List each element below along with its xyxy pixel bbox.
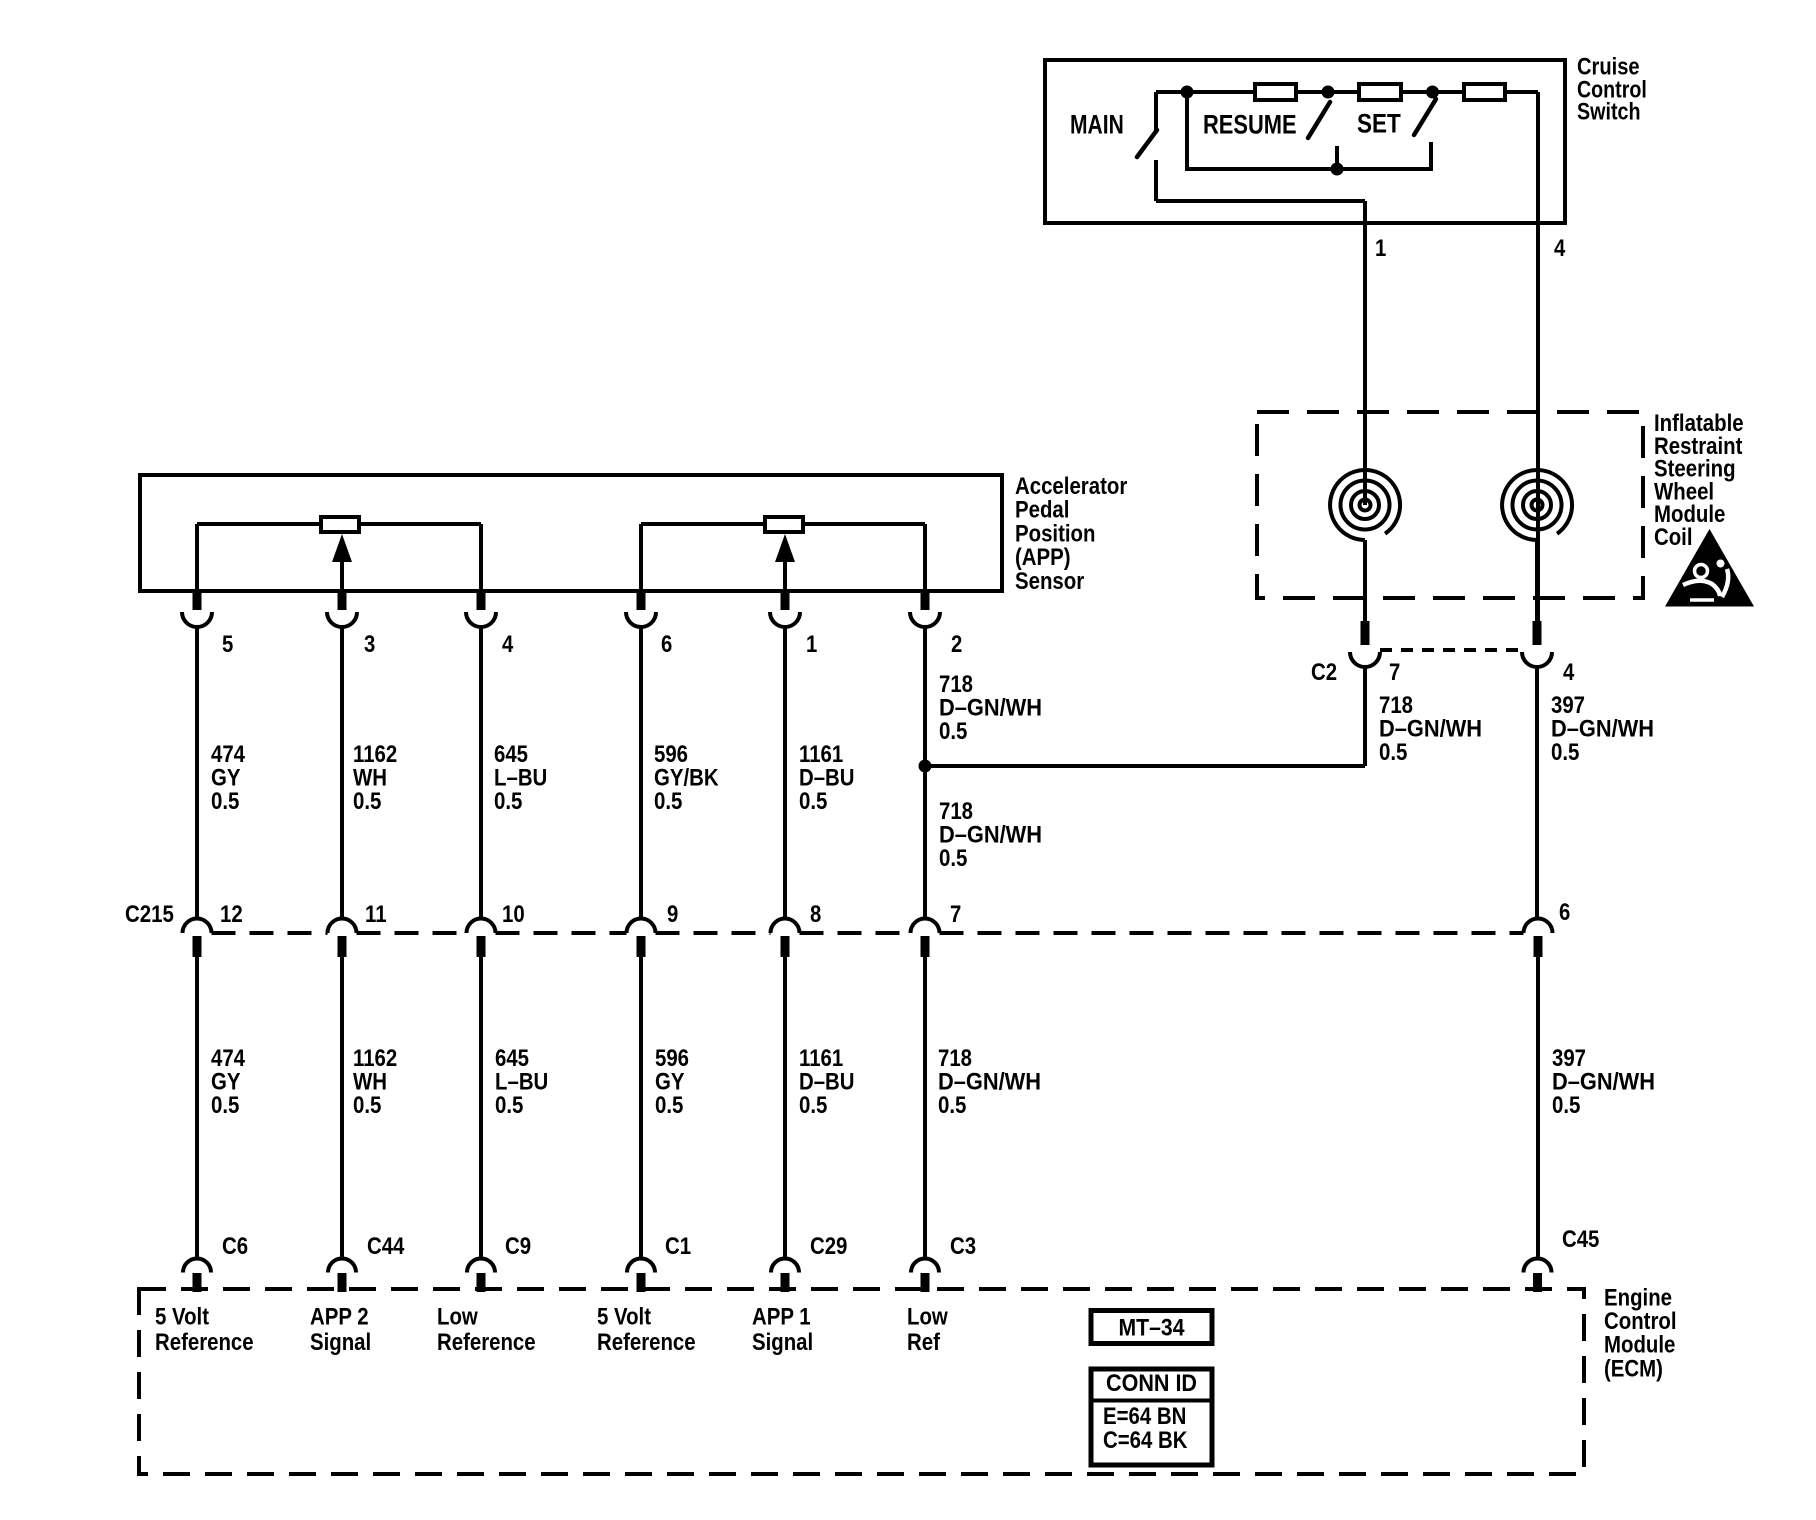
svg-text:Reference: Reference	[597, 1329, 696, 1356]
svg-text:CONN ID: CONN ID	[1106, 1370, 1197, 1397]
svg-text:3: 3	[364, 631, 375, 658]
svg-text:4: 4	[1554, 235, 1566, 262]
svg-text:0.5: 0.5	[939, 845, 967, 872]
svg-text:0.5: 0.5	[799, 1092, 827, 1119]
svg-text:Signal: Signal	[310, 1329, 371, 1356]
svg-text:RESUME: RESUME	[1203, 110, 1297, 140]
svg-text:4: 4	[502, 631, 514, 658]
svg-text:1: 1	[806, 631, 817, 658]
svg-text:5: 5	[222, 631, 233, 658]
svg-text:0.5: 0.5	[1379, 739, 1407, 766]
svg-text:(ECM): (ECM)	[1604, 1355, 1663, 1382]
svg-text:7: 7	[1389, 659, 1400, 686]
svg-text:Sensor: Sensor	[1015, 568, 1084, 595]
svg-text:Coil: Coil	[1654, 524, 1693, 551]
svg-text:6: 6	[1559, 899, 1570, 926]
svg-text:Switch: Switch	[1577, 98, 1641, 125]
svg-text:Low: Low	[437, 1304, 478, 1331]
svg-text:10: 10	[502, 901, 525, 928]
svg-text:0.5: 0.5	[939, 718, 967, 745]
svg-text:0.5: 0.5	[211, 1092, 239, 1119]
svg-text:0.5: 0.5	[353, 788, 381, 815]
svg-text:Reference: Reference	[437, 1329, 536, 1356]
svg-text:5 Volt: 5 Volt	[155, 1304, 209, 1331]
svg-text:0.5: 0.5	[938, 1092, 966, 1119]
svg-text:9: 9	[667, 901, 678, 928]
svg-text:6: 6	[661, 631, 672, 658]
svg-text:C=64 BK: C=64 BK	[1103, 1427, 1188, 1454]
svg-text:C2: C2	[1311, 659, 1337, 686]
svg-text:MAIN: MAIN	[1070, 110, 1124, 140]
svg-text:C215: C215	[125, 901, 174, 928]
svg-text:4: 4	[1563, 659, 1575, 686]
svg-text:5 Volt: 5 Volt	[597, 1304, 651, 1331]
svg-text:SET: SET	[1357, 109, 1401, 139]
svg-text:1: 1	[1375, 235, 1386, 262]
svg-text:MT–34: MT–34	[1119, 1315, 1186, 1342]
svg-text:APP 2: APP 2	[310, 1304, 369, 1331]
svg-text:C6: C6	[222, 1233, 248, 1260]
svg-text:7: 7	[950, 901, 961, 928]
svg-text:Reference: Reference	[155, 1329, 254, 1356]
svg-text:0.5: 0.5	[495, 1092, 523, 1119]
svg-text:APP 1: APP 1	[752, 1304, 811, 1331]
svg-text:C1: C1	[665, 1233, 691, 1260]
svg-text:0.5: 0.5	[353, 1092, 381, 1119]
svg-text:0.5: 0.5	[211, 788, 239, 815]
svg-text:8: 8	[810, 901, 821, 928]
svg-text:C29: C29	[810, 1233, 847, 1260]
svg-text:0.5: 0.5	[654, 788, 682, 815]
svg-text:0.5: 0.5	[799, 788, 827, 815]
svg-text:Ref: Ref	[907, 1329, 941, 1356]
svg-text:C9: C9	[505, 1233, 531, 1260]
svg-text:Low: Low	[907, 1304, 948, 1331]
svg-text:E=64 BN: E=64 BN	[1103, 1403, 1186, 1430]
svg-text:0.5: 0.5	[494, 788, 522, 815]
svg-text:Signal: Signal	[752, 1329, 813, 1356]
svg-text:12: 12	[220, 901, 243, 928]
svg-text:0.5: 0.5	[655, 1092, 683, 1119]
svg-text:0.5: 0.5	[1552, 1092, 1580, 1119]
svg-text:11: 11	[365, 901, 387, 928]
svg-text:0.5: 0.5	[1551, 739, 1579, 766]
svg-text:C45: C45	[1562, 1226, 1599, 1253]
svg-text:C44: C44	[367, 1233, 405, 1260]
svg-text:C3: C3	[950, 1233, 976, 1260]
svg-text:2: 2	[951, 631, 962, 658]
